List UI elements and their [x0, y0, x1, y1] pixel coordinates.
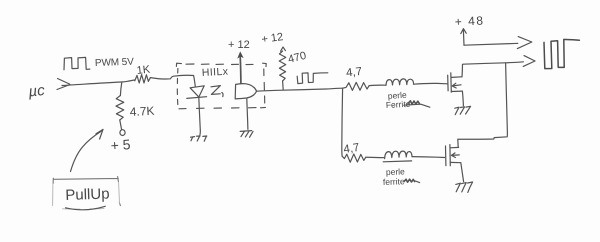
label Z	[211, 86, 223, 97]
LED D1 of optocoupler	[190, 86, 204, 97]
svg-text:ferrite: ferrite	[383, 176, 405, 187]
resistor R1 1K	[135, 75, 151, 83]
svg-text:+ 12: + 12	[228, 39, 250, 51]
waveform after opto glyph	[297, 73, 328, 84]
svg-text:Ferrite: Ferrite	[386, 99, 411, 110]
wire Q1 drain output arrow	[463, 56, 535, 67]
svg-text:4.7K: 4.7K	[129, 104, 154, 119]
resistor R4 4.7 (top branch)	[343, 82, 370, 90]
waveform output glyph	[544, 39, 579, 68]
svg-text:+ 5: + 5	[110, 136, 131, 153]
wire 1K to opto	[150, 75, 195, 86]
svg-text:4,7: 4,7	[343, 142, 361, 156]
wire branch down	[341, 88, 344, 156]
ground under Q2	[456, 182, 473, 192]
input arrow	[57, 79, 70, 90]
svg-text:4,7: 4,7	[346, 66, 363, 80]
svg-text:470: 470	[287, 50, 308, 66]
wire ferrite to Q2 gate	[412, 156, 445, 159]
power +12 arrow (gate supply)	[239, 56, 242, 83]
inductor L2 ferrite bead	[385, 151, 412, 159]
svg-text:HIILx: HIILx	[202, 66, 229, 79]
transistor Q2 MOSFET	[445, 146, 447, 166]
ground under Q1	[455, 106, 471, 114]
transistor Q1 MOSFET	[447, 75, 449, 91]
svg-text:1K: 1K	[136, 64, 151, 77]
wire opto output to split junction	[257, 88, 343, 91]
optocoupler U1 dashed box	[176, 63, 266, 109]
svg-text:PWM 5V: PWM 5V	[95, 57, 135, 69]
resistor R5 4.7 (bottom branch)	[342, 154, 366, 162]
gate U1 output buffer	[235, 84, 256, 99]
waveform PWM input glyph	[64, 57, 90, 69]
annotation curved arrow to pullup	[71, 129, 104, 171]
wire gate to ground	[247, 99, 248, 130]
ground under gate	[240, 131, 253, 138]
svg-text:µc: µc	[28, 82, 46, 101]
resistor R3 470	[281, 47, 286, 51]
resistor R2 4.7K	[116, 96, 124, 121]
wire main input	[62, 80, 135, 86]
wire junction down to pullup resistor	[120, 82, 121, 95]
wire ferrite to Q1 gate	[414, 82, 448, 85]
wire down to Q2 drain	[458, 63, 508, 148]
node +5 terminal circle	[120, 130, 125, 136]
annotation PullUp box	[53, 177, 120, 206]
wire +48 rail arrow	[464, 37, 532, 49]
svg-text:+ 12: + 12	[261, 31, 284, 46]
wire R4 to ferrite	[369, 84, 385, 86]
wire R5 to ferrite	[366, 156, 384, 158]
svg-text:+ 48: + 48	[454, 13, 484, 29]
svg-text:PullUp: PullUp	[65, 185, 110, 204]
inductor L1 ferrite bead	[386, 79, 414, 86]
ground under LED	[191, 136, 207, 141]
